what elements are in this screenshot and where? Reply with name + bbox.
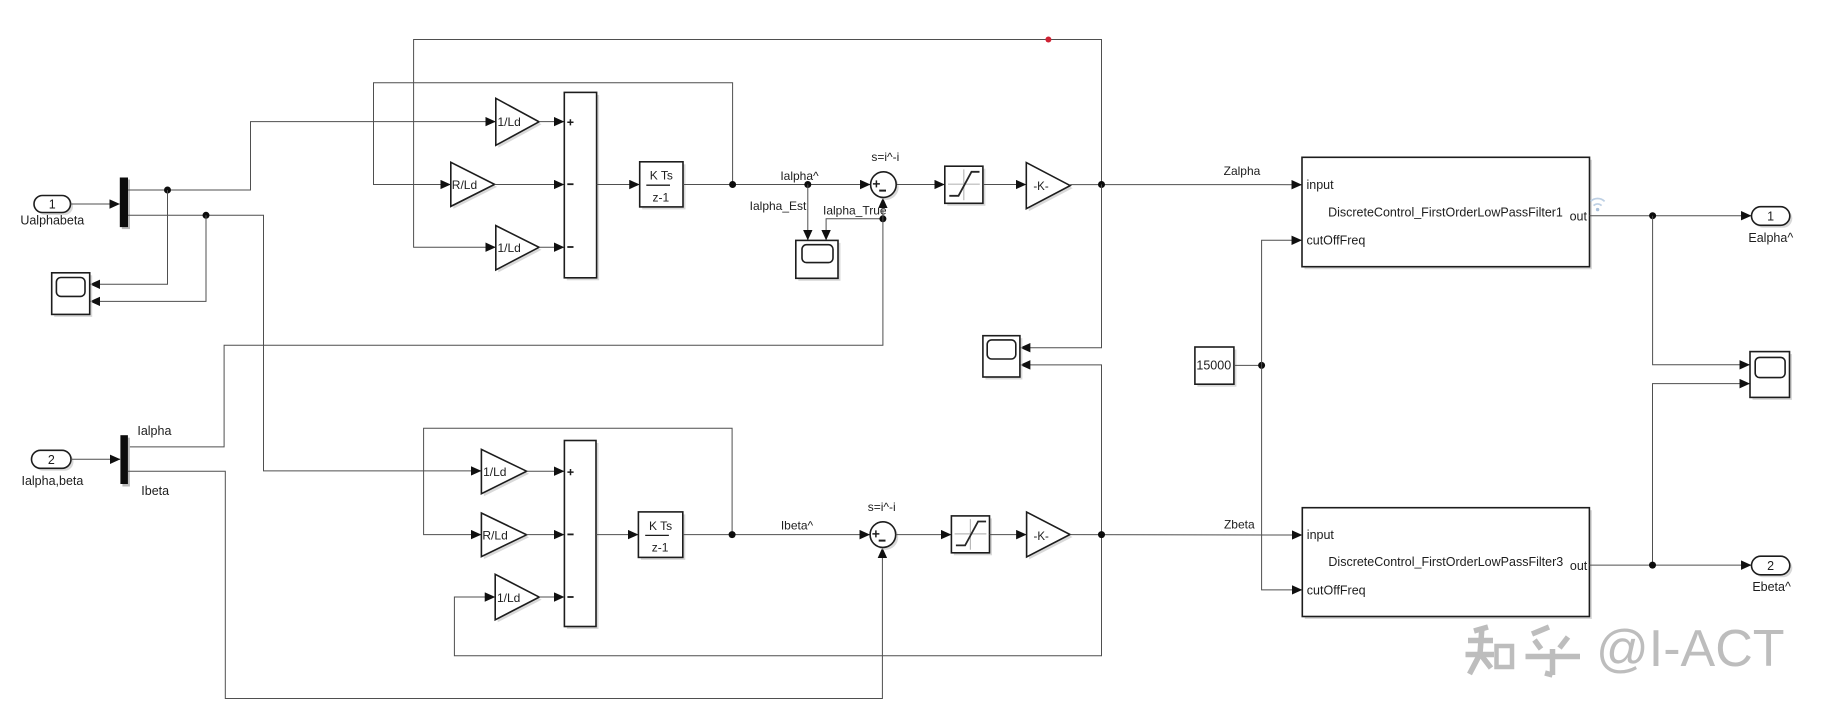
wire bottom feedback: KTs output around to gain R/Ld (bottom) [424,428,732,534]
wire port2 to demux2 [71,458,120,460]
svg-text:1: 1 [49,198,56,212]
sum block (bottom subsystem) [564,441,598,630]
svg-text:Ialpha_True: Ialpha_True [823,203,887,217]
wire saturation to gain -K- (bottom) [990,534,1027,536]
node junction on Ualpha [164,187,171,194]
svg-text:@I-ACT: @I-ACT [1596,620,1785,678]
demux Demux1 [120,178,130,230]
wire saturation to gain -K- (top) [983,184,1026,186]
char hu strokes [1532,627,1549,634]
wire gainR to sum [495,184,564,186]
wire feedback from K Ts output down-around to gain R/Ld [374,83,733,185]
svg-text:R/Ld: R/Ld [482,528,507,542]
wire Zbeta up to scope3 bottom input [1020,365,1101,535]
gain R/Ld (bottom subsystem) [481,513,529,559]
svg-text:Zalpha: Zalpha [1224,164,1261,178]
output port 1 Ealpha^ [1748,207,1793,245]
wire 15000 to cutOffFreq rail [1234,364,1262,366]
wire gain -K- to filter3 input (Zbeta) [1070,534,1302,536]
svg-text:1/Ld: 1/Ld [483,465,506,479]
sum circle (bottom) [870,522,898,550]
wire sum to K Ts block [597,184,640,186]
node junction Ealpha [1649,212,1656,219]
node junction bottom feedback tap [729,531,736,538]
wire sumB to K Ts (bottom) [596,534,638,536]
output port 2 Ebeta^ [1752,556,1793,594]
saturation block (top) [945,166,986,206]
wire Ialpha_Est to scope2 [807,185,809,241]
wire K Ts out to sum circle (Ibeta^) [683,534,870,536]
svg-text:input: input [1307,528,1335,542]
wire Ubeta: demux1 out2 to gain 1/Ld (bottom subsystem) [128,215,481,471]
node junction cutOffFreq [1258,362,1265,369]
node junction Ialpha_True [879,215,886,222]
icon logging badge (wifi) on filter1 out [1591,199,1605,212]
node junction on Ubeta [203,212,210,219]
svg-text:s=i^-i: s=i^-i [871,150,899,164]
svg-text:1/Ld: 1/Ld [498,115,521,129]
wire gainB3 to sumB [539,596,564,598]
subsystem DiscreteControl_FirstOrderLowPassFilter1 [1302,157,1592,269]
wire cutOffFreq rail up to filter1 [1262,240,1302,365]
svg-text:z-1: z-1 [652,541,669,555]
svg-text:cutOffFreq: cutOffFreq [1307,583,1366,597]
wire gain3 to sum [539,246,564,248]
svg-text:Ibeta^: Ibeta^ [781,519,814,533]
wire Ualpha: demux1 out1 to gain 1/Ld (top) [128,122,495,190]
watermark 知乎 @I-ACT [1466,627,1581,675]
sum circle (top) [871,172,899,200]
input port 2 Ialpha,beta [21,450,83,488]
subsystem DiscreteControl_FirstOrderLowPassFilter3 [1302,508,1592,619]
gain -K- (top) [1026,163,1072,212]
wire Zbeta feedback down-around to gain 1/Ld (bottom third) [454,535,1101,656]
wire gainBR to sumB [527,534,564,536]
svg-text:Ialpha^: Ialpha^ [780,169,819,183]
gain 1/Ld (top subsystem, first) [496,98,542,148]
wire Ubeta branch to scope1 [90,215,206,301]
svg-text:-K-: -K- [1033,181,1049,193]
svg-text:DiscreteControl_FirstOrderLowP: DiscreteControl_FirstOrderLowPassFilter3 [1328,555,1563,569]
wire Ealpha branch to scope4 top input [1653,216,1750,365]
svg-text:Zbeta: Zbeta [1224,518,1255,532]
gain -K- (bottom) [1027,512,1073,559]
wire sum circle to saturation (top) [897,184,944,186]
wire gain1 to sum [539,121,564,123]
wire Ialpha_True from demux2 up into sum circle [128,198,883,447]
wire cutOffFreq rail down to filter3 [1262,365,1302,590]
svg-text:DiscreteControl_FirstOrderLowP: DiscreteControl_FirstOrderLowPassFilter1 [1328,205,1563,219]
wire gain -K- to filter1 input (Zalpha) [1070,184,1301,186]
scope Scope (left, mirrored) [52,273,92,317]
wire sum circle to saturation (bottom) [896,534,951,536]
node junction Zbeta [1098,531,1105,538]
svg-text:z-1: z-1 [652,190,669,204]
scope Scope3 (middle, mirrored) [983,336,1023,380]
svg-text:Ialpha_Est: Ialpha_Est [750,199,807,213]
constant 15000 [1195,347,1237,387]
wire gainB1 to sumB [527,470,564,472]
sum block (top subsystem) [564,92,599,280]
svg-text:2: 2 [1767,559,1774,573]
svg-text:1: 1 [1767,210,1774,224]
wire filter1 out to port Ealpha^ [1590,215,1752,217]
discrete integrator K Ts / z-1 (bottom) [638,512,685,560]
demux Demux2 [120,435,129,486]
svg-text:s=i^-i: s=i^-i [868,500,896,514]
gain R/Ld (top subsystem) [451,162,497,209]
svg-text:R/Ld: R/Ld [452,178,477,192]
node junction Ebeta [1649,562,1656,569]
svg-text:out: out [1570,209,1588,223]
svg-text:1/Ld: 1/Ld [497,591,520,605]
svg-text:2: 2 [48,453,55,467]
wire K Ts output to sum circle (Ialpha^) [683,184,870,186]
wire Ibeta_True: demux2 out2 around bottom into sum circle (bottom) [128,471,883,698]
node red breakpoint dot on top feedback [1045,37,1051,43]
scope Scope4 (right) [1750,352,1792,400]
svg-text:K Ts: K Ts [650,169,673,183]
svg-text:out: out [1570,559,1588,573]
wire Ialpha_True branch to scope2 [826,219,883,240]
svg-text:Ibeta: Ibeta [141,484,169,498]
char zhi: left radical strokes [1474,627,1488,631]
svg-text:Ialpha,beta: Ialpha,beta [21,474,83,488]
svg-text:-K-: -K- [1034,531,1050,543]
wire top feedback Zalpha: vertical at x=1101.5 up, across top, down to gain 1/Ld (third input) [414,40,1102,248]
node junction Zalpha [1098,181,1105,188]
gain 1/Ld (bottom subsystem, third) [495,574,542,622]
discrete integrator K Ts / z-1 (top) [640,162,686,210]
input port 1 Ualphabeta [20,196,84,228]
svg-text:Ealpha^: Ealpha^ [1748,231,1793,245]
node junction feedback tap [729,181,736,188]
svg-text:Ialpha: Ialpha [137,424,171,438]
svg-text:K Ts: K Ts [649,519,672,533]
wire filter3 out to port Ebeta^ [1589,564,1751,566]
svg-text:cutOffFreq: cutOffFreq [1307,234,1366,248]
gain 1/Ld (bottom subsystem, first) [481,449,529,496]
wire port1 to demux1 [71,203,120,205]
gain 1/Ld (top subsystem, third) [496,226,542,273]
char zhi: right mouth box [1497,646,1513,667]
saturation block (bottom) [951,516,992,555]
wire Ualpha branch to scope1 [90,190,167,284]
svg-text:input: input [1307,178,1335,192]
svg-text:Ebeta^: Ebeta^ [1752,580,1791,594]
scope Scope2 (under top sum circle) [796,240,841,280]
svg-text:Ualphabeta: Ualphabeta [20,214,84,228]
svg-text:1/Ld: 1/Ld [498,241,521,255]
node junction Ialpha_Est tap [804,181,811,188]
wire Zalpha down to scope3 top input [1020,185,1101,348]
wire Ebeta branch to scope4 bottom input [1653,384,1750,565]
svg-text:15000: 15000 [1196,359,1231,373]
